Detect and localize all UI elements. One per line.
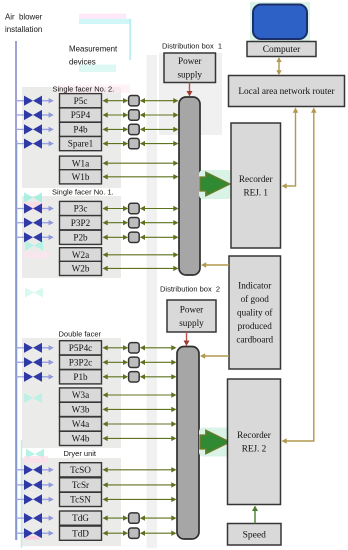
valve TcSr: [24, 480, 42, 490]
distribution box 1: [179, 97, 200, 275]
sensor box P3P2: [60, 216, 102, 230]
svg-text:Recorder: Recorder: [239, 174, 273, 184]
svg-text:REJ. 2: REJ. 2: [242, 444, 267, 454]
wire box W4a to distribution box: [103, 421, 177, 426]
sensor box W4b: [60, 431, 102, 445]
ghost cyan pipe segment lower: [21, 440, 23, 548]
svg-text:Distribution box 1: Distribution box 1: [162, 42, 222, 51]
wire valve Spare1 to box: [42, 141, 54, 146]
svg-text:Double facer: Double facer: [59, 330, 102, 339]
power wire supply 1 to distribution box 1: [187, 83, 193, 97]
ghost cyan line right of measurement label: [129, 19, 131, 60]
svg-text:W4a: W4a: [72, 419, 89, 429]
wire valve P2b to box: [42, 235, 54, 240]
wire box TcSO to distribution box: [103, 467, 177, 472]
ghost pink artifact above TcSO: [24, 456, 48, 463]
air pipe main vertical line: [15, 41, 17, 540]
connector P5c: [129, 96, 140, 106]
svg-text:TdD: TdD: [72, 528, 89, 538]
valve P5P4c: [24, 343, 42, 353]
valve TdD: [24, 528, 42, 538]
wire connector P3c to distribution box: [140, 206, 179, 211]
wire box W2b to distribution box: [103, 266, 179, 271]
svg-text:Dryer unit: Dryer unit: [64, 449, 97, 458]
valve P5P4: [24, 110, 42, 120]
pipe branch to valve TcSN: [16, 498, 25, 500]
valve P2b: [24, 232, 42, 242]
ghost cyan text under devices: [79, 65, 116, 73]
computer monitor: [253, 5, 307, 40]
svg-text:supply: supply: [179, 318, 204, 328]
link indicator to distribution box 1: [201, 262, 229, 268]
svg-text:Recorder: Recorder: [237, 430, 271, 440]
svg-text:REJ. 1: REJ. 1: [243, 187, 268, 197]
wire connector Spare1 to distribution box: [140, 141, 179, 146]
sensor box W4a: [60, 417, 102, 431]
ghost pink band behind single facer No.2 label: [58, 85, 130, 94]
valve P4b: [24, 124, 42, 134]
wire valve P4b to box: [42, 127, 54, 132]
ghost valve artifact below W2b: [25, 287, 43, 297]
power supply 2 box: [167, 300, 216, 332]
label air blower installation: [5, 13, 43, 35]
ghost pink smear under TdD valve: [25, 536, 40, 540]
sensor box W2a: [60, 248, 102, 262]
wire box P3P2 to connector: [103, 220, 129, 225]
sensor box P4b: [60, 122, 102, 136]
wire connector TdD to distribution box: [140, 531, 177, 536]
wire box W2a to distribution box: [103, 252, 179, 257]
svg-text:Power: Power: [178, 56, 201, 66]
svg-text:Single facer No. 1.: Single facer No. 1.: [52, 188, 114, 197]
svg-text:P2b: P2b: [73, 232, 88, 242]
wire box W3b to distribution box: [103, 407, 177, 412]
svg-text:Distribution box 2: Distribution box 2: [160, 285, 220, 294]
ghost cyan pipe segment upper: [16, 140, 18, 540]
wire box P3c to connector: [103, 206, 129, 211]
sensor box P1b: [60, 370, 102, 384]
wire connector P1b to distribution box: [140, 374, 177, 379]
valve TcSN: [24, 494, 42, 504]
sensor box W1b: [60, 170, 102, 184]
svg-text:cardboard: cardboard: [236, 335, 273, 345]
svg-text:of good: of good: [241, 294, 270, 304]
valve P3P2c: [24, 357, 42, 367]
wire box Spare1 to connector: [103, 141, 129, 146]
svg-text:P3P2c: P3P2c: [69, 357, 93, 367]
wire box TcSN to distribution box: [103, 497, 177, 502]
pipe branch to valve Spare1: [16, 143, 25, 145]
svg-text:produced: produced: [238, 321, 273, 331]
local area network router box: [229, 76, 345, 107]
ghost cyan band above measurement label: [79, 19, 131, 24]
sensor box P2b: [60, 230, 102, 244]
svg-text:Spare1: Spare1: [68, 139, 94, 149]
sensor box W3a: [60, 388, 102, 402]
wire box W3a to distribution box: [103, 392, 177, 397]
valve P3P2: [24, 218, 42, 228]
power wire supply 2 to distribution box 2: [184, 332, 190, 346]
connector P5P4c: [129, 343, 140, 353]
svg-text:W3a: W3a: [72, 390, 89, 400]
wire box W1a to distribution box: [103, 161, 179, 166]
valve P1b: [24, 372, 42, 382]
wire valve TcSO to box: [42, 467, 54, 472]
valve P3c: [24, 203, 42, 213]
sensor box TdD: [60, 526, 102, 540]
wire box TdD to connector: [103, 531, 129, 536]
connector TdD: [129, 528, 140, 538]
mint highlight behind computer monitor: [250, 2, 310, 45]
wire speed box to recorder REJ.2: [252, 506, 258, 524]
wire box P4b to connector: [103, 127, 129, 132]
wire valve P3P2c to box: [42, 360, 54, 365]
wire box P1b to connector: [103, 374, 129, 379]
wire valve TdG to box: [42, 515, 54, 520]
ghost valve artifact above P3c: [24, 192, 42, 202]
pipe branch to valve P3P2: [16, 222, 25, 224]
wire box P5P4c to connector: [103, 345, 129, 350]
wire valve TcSr to box: [42, 482, 54, 487]
mint highlight behind arrow to recorder 1: [199, 170, 232, 199]
recorder REJ.2 box: [228, 379, 281, 505]
svg-text:Speed: Speed: [243, 531, 266, 541]
svg-text:supply: supply: [177, 70, 202, 80]
svg-text:P5P4c: P5P4c: [69, 343, 93, 353]
wire box P2b to connector: [103, 235, 129, 240]
pipe branch to valve P5P4c: [16, 347, 25, 349]
bus arrow distribution box 2 to recorder REJ.2: [200, 430, 230, 454]
distribution box 2: [177, 347, 199, 540]
wire connector TdG to distribution box: [140, 515, 177, 520]
panel behind dryer unit group: [22, 458, 121, 546]
wire valve P3P2 to box: [42, 220, 54, 225]
svg-text:P4b: P4b: [73, 125, 88, 135]
sensor box TdG: [60, 511, 102, 525]
wire valve TdD to box: [42, 531, 54, 536]
label measurement devices: [69, 45, 118, 67]
connector P1b: [129, 372, 140, 382]
wire valve P3c to box: [42, 206, 54, 211]
pipe branch to valve P2b: [16, 236, 25, 238]
wire connector P5P4 to distribution box: [140, 112, 179, 117]
pipe branch to valve P4b: [16, 128, 25, 130]
sensor box TcSN: [60, 492, 102, 506]
wire connector P5P4c to distribution box: [140, 345, 177, 350]
indicator box: [229, 256, 281, 369]
panel behind single facer No.1 group: [22, 196, 121, 278]
svg-text:P5P4: P5P4: [71, 110, 91, 120]
svg-text:TdG: TdG: [72, 513, 89, 523]
ghost pink band under W2a: [23, 252, 49, 258]
mint highlight behind arrow to recorder 2: [199, 428, 232, 457]
svg-text:TcSO: TcSO: [70, 465, 91, 475]
wire box TdG to connector: [103, 515, 129, 520]
svg-text:quality of: quality of: [237, 308, 273, 318]
wire connector P2b to distribution box: [140, 235, 179, 240]
wire valve P5c to box: [42, 98, 54, 103]
pipe branch to valve TcSr: [16, 484, 25, 486]
valve TcSO: [24, 465, 42, 475]
svg-text:P1b: P1b: [73, 372, 88, 382]
ghost valve artifact below P1b: [24, 393, 42, 403]
svg-text:TcSN: TcSN: [70, 495, 91, 505]
ghost pink band above measurement label: [79, 14, 126, 19]
light column band: [147, 55, 158, 548]
svg-text:P5c: P5c: [74, 96, 88, 106]
light band beside distribution boxes: [159, 53, 222, 135]
sensor box TcSO: [60, 463, 102, 477]
svg-text:Computer: Computer: [263, 45, 301, 55]
ghost pink artifact behind P3c: [23, 202, 43, 211]
panel behind single facer No.2 group: [22, 87, 121, 188]
svg-text:W4b: W4b: [72, 434, 90, 444]
connector P5P4: [129, 110, 140, 120]
link computer to router: [276, 57, 281, 75]
svg-text:Indicator: Indicator: [238, 281, 271, 291]
wire valve P5P4c to box: [42, 345, 54, 350]
svg-text:Measurement: Measurement: [69, 45, 118, 54]
pipe branch to valve P5P4: [16, 114, 25, 116]
recorder REJ.1 box: [231, 123, 281, 248]
svg-text:P3c: P3c: [74, 204, 88, 214]
wire valve P5P4 to box: [42, 112, 54, 117]
connector Spare1: [129, 138, 140, 148]
connector P2b: [129, 232, 140, 242]
pipe branch to valve TdG: [16, 517, 25, 519]
wire connector P5c to distribution box: [140, 98, 179, 103]
wire connector P4b to distribution box: [140, 127, 179, 132]
svg-text:installation: installation: [5, 25, 42, 34]
pipe branch to valve P5c: [16, 100, 25, 102]
ghost valve artifact above TcSO: [26, 449, 44, 459]
link recorder REJ.1 to router: [282, 108, 299, 189]
svg-text:W2a: W2a: [72, 250, 89, 260]
panel behind double facer group: [22, 338, 121, 448]
ghost valve artifact near W2a: [25, 240, 43, 250]
wire valve TcSN to box: [42, 497, 54, 502]
link indicator to distribution box 2: [200, 353, 229, 359]
valve P5c: [24, 96, 42, 106]
computer label box: [247, 42, 316, 57]
pipe branch to valve P1b: [16, 376, 25, 378]
svg-text:W1a: W1a: [72, 158, 89, 168]
sensor box TcSr: [60, 478, 102, 492]
svg-text:TcSr: TcSr: [72, 480, 89, 490]
wire valve P1b to box: [42, 374, 54, 379]
sensor box W3b: [60, 402, 102, 416]
connector P3P2c: [129, 357, 140, 367]
svg-text:Power: Power: [180, 305, 203, 315]
wire box TcSr to distribution box: [103, 482, 177, 487]
sensor box P5P4: [60, 108, 102, 122]
wire box W4b to distribution box: [103, 436, 177, 441]
svg-text:Local area network router: Local area network router: [238, 87, 335, 97]
connector P3P2: [129, 218, 140, 228]
svg-text:W1b: W1b: [72, 172, 90, 182]
bus arrow distribution box 1 to recorder REJ.1: [200, 172, 230, 196]
wire connector P3P2 to distribution box: [140, 220, 179, 225]
valve Spare1: [24, 139, 42, 149]
connector P4b: [129, 124, 140, 134]
sensor box W2b: [60, 261, 102, 275]
pipe branch to valve P3P2c: [16, 361, 25, 363]
svg-text:devices: devices: [69, 58, 96, 67]
wire box P3P2c to connector: [103, 360, 129, 365]
svg-text:W2b: W2b: [72, 264, 90, 274]
sensor box P5c: [60, 94, 102, 108]
svg-text:W3b: W3b: [72, 405, 90, 415]
sensor box P5P4c: [60, 341, 102, 355]
sensor box W1a: [60, 156, 102, 170]
sensor box P3c: [60, 201, 102, 215]
wire box P5P4 to connector: [103, 112, 129, 117]
svg-text:Single facer No. 2.: Single facer No. 2.: [53, 85, 115, 94]
pipe branch to valve P3c: [16, 208, 25, 210]
connector TdG: [129, 513, 140, 523]
wire connector P3P2c to distribution box: [140, 360, 177, 365]
speed box: [228, 524, 282, 546]
pipe branch to valve TdD: [16, 532, 25, 534]
power supply 1 box: [164, 53, 216, 83]
sensor box Spare1: [60, 137, 102, 151]
link recorder REJ.2 to router: [282, 108, 317, 444]
wire box P5c to connector: [103, 98, 129, 103]
svg-text:Air blower: Air blower: [5, 13, 43, 22]
svg-text:P3P2: P3P2: [71, 218, 91, 228]
valve TdG: [24, 513, 42, 523]
pipe branch to valve TcSO: [16, 469, 25, 471]
wire box W1b to distribution box: [103, 174, 179, 179]
sensor box P3P2c: [60, 355, 102, 369]
connector P3c: [129, 203, 140, 213]
